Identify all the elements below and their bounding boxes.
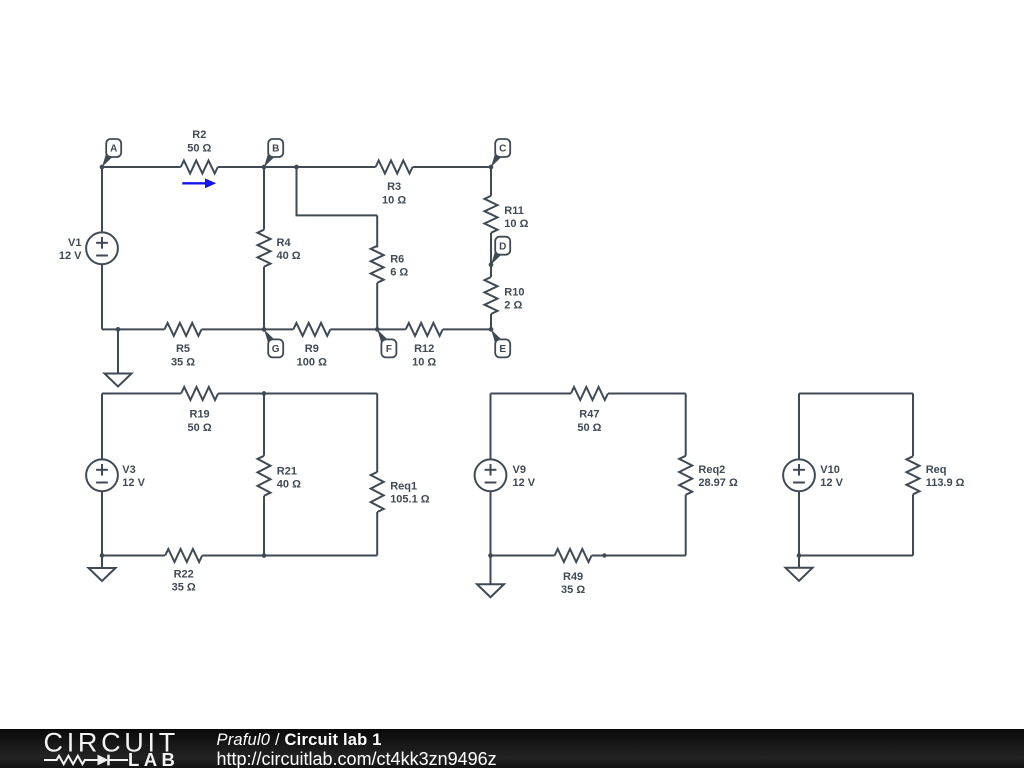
resistor R4 xyxy=(258,230,301,267)
svg-text:10 Ω: 10 Ω xyxy=(504,218,528,230)
svg-text:35 Ω: 35 Ω xyxy=(561,584,585,596)
svg-text:Req1: Req1 xyxy=(390,480,417,492)
wire B to R3 xyxy=(264,166,376,168)
wire R2 to B xyxy=(218,166,264,168)
resistor Req1 xyxy=(371,472,430,512)
resistor R22 xyxy=(165,549,202,594)
wire Req2 branch top xyxy=(685,394,687,456)
junction branch at B right xyxy=(294,165,299,170)
resistor R2 xyxy=(181,129,218,173)
wire top rail A to R2 xyxy=(102,166,181,168)
wire R10 down to E xyxy=(490,314,492,329)
svg-text:R19: R19 xyxy=(190,409,210,421)
svg-text:V10: V10 xyxy=(820,464,840,476)
wire R21 branch top xyxy=(263,394,265,456)
footer url text xyxy=(217,749,497,768)
node E junction xyxy=(489,327,494,332)
wire R21 bottom xyxy=(263,496,265,556)
wire R47 to right xyxy=(608,393,686,395)
wire R12 to E xyxy=(443,328,491,330)
resistor R3 xyxy=(376,161,413,207)
svg-text:2 Ω: 2 Ω xyxy=(504,299,522,311)
wire G to R9 xyxy=(264,328,293,330)
wire Req bottom xyxy=(912,494,914,555)
svg-text:Req: Req xyxy=(926,464,947,476)
wire A down to V1 xyxy=(101,167,103,232)
wire V3 down to bottom xyxy=(101,492,103,556)
resistor R9 xyxy=(293,323,330,369)
svg-text:10 Ω: 10 Ω xyxy=(382,195,406,207)
svg-text:12 V: 12 V xyxy=(122,477,145,489)
wire R49 to right xyxy=(592,555,686,557)
svg-text:R12: R12 xyxy=(414,343,434,355)
wire R19 to mid junction and right xyxy=(218,393,377,395)
resistor R11 xyxy=(485,196,529,233)
svg-text:100 Ω: 100 Ω xyxy=(297,357,327,369)
wire c3 left down to V9 xyxy=(490,394,492,459)
voltage source V1 12V xyxy=(59,232,118,264)
junction ground tap xyxy=(116,327,121,332)
svg-text:50 Ω: 50 Ω xyxy=(188,422,212,434)
wire c4 left down to V10 xyxy=(798,394,800,459)
wire Req branch top xyxy=(912,394,914,457)
svg-text:40 Ω: 40 Ω xyxy=(277,478,301,490)
resistor R49 xyxy=(555,549,592,596)
resistor R5 xyxy=(165,323,202,369)
svg-text:LAB: LAB xyxy=(128,749,179,768)
node C junction xyxy=(489,165,494,170)
wire c4 bottom rail xyxy=(799,555,913,557)
wire c2 bottom left segment xyxy=(102,555,165,557)
svg-text:R2: R2 xyxy=(192,129,206,141)
svg-text:12 V: 12 V xyxy=(513,477,536,489)
svg-text:G: G xyxy=(272,344,280,355)
ground c3 xyxy=(490,556,492,585)
svg-text:R9: R9 xyxy=(305,343,319,355)
wire c3 top-left xyxy=(491,393,571,395)
wire Req1 bottom xyxy=(376,512,378,556)
svg-text:50 Ω: 50 Ω xyxy=(577,422,601,434)
wire B down to R4 xyxy=(263,167,265,230)
junction c2 bottom mid xyxy=(262,553,267,558)
wire c4 top rail xyxy=(799,393,913,395)
wire C down to R11 xyxy=(490,167,492,196)
svg-text:B: B xyxy=(272,144,279,155)
wire V1 down to bottom rail xyxy=(101,265,103,330)
svg-text:R21: R21 xyxy=(277,465,297,477)
node F junction xyxy=(375,327,380,332)
junction after R49 xyxy=(602,553,606,557)
ground c2 xyxy=(101,556,103,569)
resistor R47 xyxy=(571,387,608,434)
logo resistor-diode squiggle xyxy=(44,755,128,766)
svg-text:6 Ω: 6 Ω xyxy=(390,267,408,279)
svg-text:R10: R10 xyxy=(504,286,524,298)
wire Req1 branch top xyxy=(376,394,378,473)
wire c2 left down to V3 xyxy=(101,394,103,459)
svg-text:F: F xyxy=(386,344,392,355)
resistor R10 xyxy=(485,265,525,314)
node label C xyxy=(491,139,510,167)
wire c3 bottom left segment xyxy=(491,555,555,557)
wire R4 down to G xyxy=(263,267,265,330)
svg-text:E: E xyxy=(499,344,506,355)
svg-text:R22: R22 xyxy=(174,568,194,580)
wire Req2 bottom xyxy=(685,495,687,556)
wire c2 top-left xyxy=(102,393,181,395)
node label D xyxy=(491,237,510,265)
svg-text:R3: R3 xyxy=(387,181,401,193)
ground c4 xyxy=(798,556,800,568)
node label A xyxy=(102,139,121,167)
junction c2 bottom-left xyxy=(100,553,105,558)
wire bottom-left corner to ground tap xyxy=(102,328,118,330)
svg-text:Req2: Req2 xyxy=(698,464,725,476)
node B junction xyxy=(262,165,267,170)
voltage source V10 12V xyxy=(783,459,843,491)
svg-text:105.1 Ω: 105.1 Ω xyxy=(390,493,430,505)
svg-text:35 Ω: 35 Ω xyxy=(171,357,195,369)
svg-text:V9: V9 xyxy=(513,464,526,476)
wire R9 to F xyxy=(330,328,377,330)
ground (top circuit) xyxy=(117,329,119,373)
resistor R12 xyxy=(406,323,443,369)
voltage source V9 12V xyxy=(475,459,536,491)
svg-text:R5: R5 xyxy=(176,343,190,355)
node label G xyxy=(264,329,283,357)
resistor Req2 xyxy=(679,456,738,495)
svg-text:V1: V1 xyxy=(68,237,81,249)
node G junction xyxy=(262,327,267,332)
junction c2 top mid xyxy=(262,391,267,396)
svg-text:35 Ω: 35 Ω xyxy=(172,582,196,594)
node D junction xyxy=(489,262,494,267)
resistor R21 xyxy=(258,456,302,496)
svg-text:R11: R11 xyxy=(504,205,524,217)
wire R11 to D xyxy=(490,233,492,265)
footer bar xyxy=(0,729,1024,768)
junction c3 bottom-left xyxy=(488,553,493,558)
node A junction xyxy=(100,165,105,170)
svg-text:D: D xyxy=(499,241,506,252)
footer title text xyxy=(217,731,382,750)
voltage source V3 12V xyxy=(86,459,145,491)
wire R6 down to F xyxy=(376,283,378,330)
wire branch elbow B to R6 xyxy=(296,167,298,215)
svg-text:V3: V3 xyxy=(122,464,135,476)
wire V10 down to bottom xyxy=(798,492,800,556)
svg-text:R49: R49 xyxy=(563,571,583,583)
svg-text:A: A xyxy=(110,144,117,155)
svg-text:10 Ω: 10 Ω xyxy=(412,357,436,369)
svg-text:12 V: 12 V xyxy=(820,477,843,489)
wire ground tap to R5 xyxy=(118,328,165,330)
svg-text:12 V: 12 V xyxy=(59,250,82,262)
svg-text:R4: R4 xyxy=(277,237,292,249)
wire R22 to right xyxy=(202,555,377,557)
node label F xyxy=(377,329,396,357)
CircuitLab logo xyxy=(0,728,200,768)
current arrow (blue) xyxy=(182,178,216,188)
svg-text:C: C xyxy=(499,144,506,155)
svg-text:28.97 Ω: 28.97 Ω xyxy=(698,477,738,489)
svg-text:40 Ω: 40 Ω xyxy=(277,250,301,262)
svg-text:R6: R6 xyxy=(390,254,404,266)
junction c4 bottom-left xyxy=(797,553,802,558)
resistor R19 xyxy=(181,387,218,434)
resistor R6 xyxy=(371,246,409,283)
node label E xyxy=(491,329,510,357)
svg-text:113.9 Ω: 113.9 Ω xyxy=(926,477,965,489)
resistor Req xyxy=(907,456,965,494)
wire F to R12 xyxy=(377,328,406,330)
wire V9 down to bottom xyxy=(490,492,492,556)
wire R5 to G xyxy=(202,328,265,330)
node label B xyxy=(264,139,283,167)
wire R3 to C xyxy=(413,166,491,168)
svg-text:50 Ω: 50 Ω xyxy=(187,143,211,155)
svg-text:R47: R47 xyxy=(579,409,599,421)
